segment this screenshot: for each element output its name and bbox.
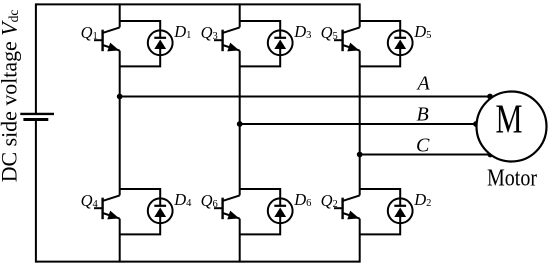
wire phase leg 1 middle xyxy=(119,51,121,196)
svg-text:M: M xyxy=(496,95,523,141)
transistor Q2 xyxy=(334,195,360,219)
svg-text:Q6: Q6 xyxy=(201,191,218,210)
svg-text:Q3: Q3 xyxy=(201,23,218,42)
diode D5 xyxy=(388,30,413,55)
wire phase line C xyxy=(360,154,491,156)
diode D3 xyxy=(268,30,293,55)
diode D2 xyxy=(388,198,413,223)
wire bottom DC rail xyxy=(36,261,360,263)
wire top DC rail xyxy=(36,3,360,5)
wire phase leg 2 upper xyxy=(239,3,241,27)
wire D2 lower connection xyxy=(360,211,401,235)
wire phase leg 3 lower xyxy=(359,219,361,263)
transistor Q6 xyxy=(214,195,240,219)
svg-text:A: A xyxy=(416,73,431,95)
wire D1 upper connection xyxy=(120,21,161,43)
svg-text:C: C xyxy=(416,135,430,157)
wire phase leg 3 middle xyxy=(359,51,361,196)
diode D6 xyxy=(268,198,293,223)
svg-text:D6: D6 xyxy=(293,190,311,209)
battery Vdc negative plate xyxy=(23,118,48,121)
wire D6 lower connection xyxy=(240,211,281,235)
svg-text:D3: D3 xyxy=(293,22,311,41)
diode D4 xyxy=(148,198,173,223)
wire phase line B xyxy=(240,123,476,125)
wire D5 upper connection xyxy=(360,21,401,43)
wire phase leg 2 lower xyxy=(239,219,241,263)
battery Vdc positive plate xyxy=(20,113,54,115)
node junction B at motor xyxy=(473,121,479,127)
wire phase leg 1 lower xyxy=(119,219,121,263)
svg-text:D4: D4 xyxy=(173,190,192,209)
motor M circle xyxy=(477,92,547,162)
wire D4 lower connection xyxy=(120,211,161,235)
node junction C at motor xyxy=(487,152,493,158)
wire left rail lower (from battery) xyxy=(35,120,37,263)
diode D1 xyxy=(148,30,173,55)
svg-text:DC side voltage Vdc: DC side voltage Vdc xyxy=(0,10,22,183)
wire phase leg 1 upper xyxy=(119,3,121,27)
node junction C on leg xyxy=(357,152,363,158)
wire phase line A xyxy=(120,96,490,98)
transistor Q1 xyxy=(94,27,120,51)
transistor Q4 xyxy=(94,195,120,219)
wire D1 lower connection xyxy=(120,43,161,67)
svg-text:Q1: Q1 xyxy=(81,23,98,42)
transistor Q3 xyxy=(214,27,240,51)
wire left rail upper (to battery) xyxy=(35,3,37,114)
node junction A on leg xyxy=(117,94,123,100)
wire D4 upper connection xyxy=(120,189,161,211)
svg-text:Q2: Q2 xyxy=(321,191,338,210)
wire D3 upper connection xyxy=(240,21,281,43)
svg-text:B: B xyxy=(417,104,429,126)
svg-text:Q5: Q5 xyxy=(321,23,338,42)
wire phase leg 2 middle xyxy=(239,51,241,196)
wire phase leg 3 upper xyxy=(359,3,361,27)
svg-text:Q4: Q4 xyxy=(81,191,99,210)
wire D3 lower connection xyxy=(240,43,281,67)
wire D6 upper connection xyxy=(240,189,281,211)
svg-text:Motor: Motor xyxy=(487,165,537,192)
node junction A at motor xyxy=(487,94,493,100)
node junction B on leg xyxy=(237,121,243,127)
svg-text:D5: D5 xyxy=(413,22,431,41)
svg-text:D2: D2 xyxy=(413,190,431,209)
svg-text:D1: D1 xyxy=(173,22,191,41)
transistor Q5 xyxy=(334,27,360,51)
wire D2 upper connection xyxy=(360,189,401,211)
wire D5 lower connection xyxy=(360,43,401,67)
